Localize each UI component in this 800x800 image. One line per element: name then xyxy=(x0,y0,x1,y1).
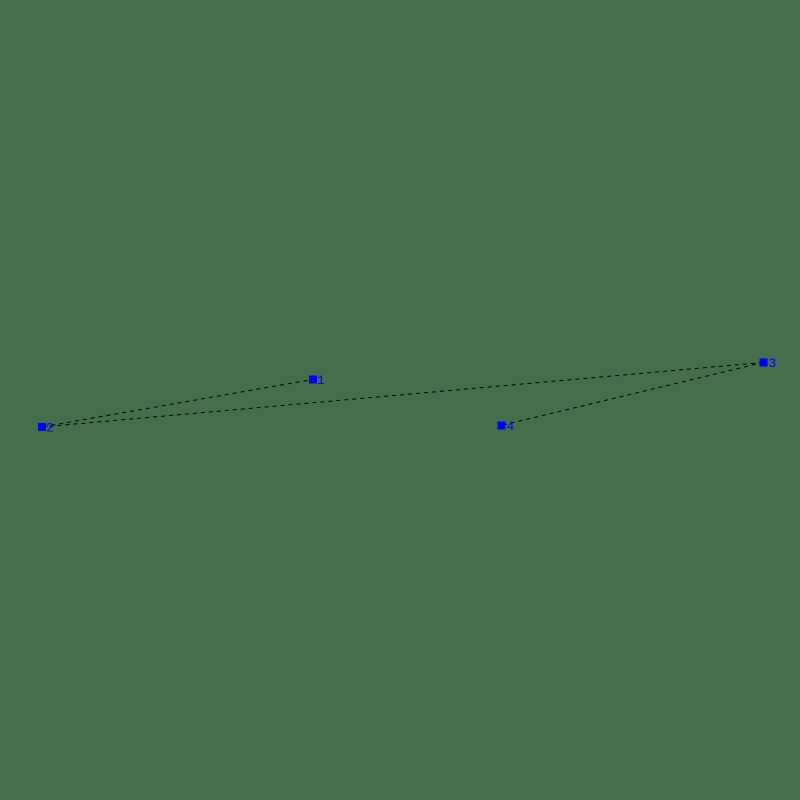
wire edge 2-1 xyxy=(42,380,313,428)
wire edge 2-3 xyxy=(42,363,764,428)
svg-text:2: 2 xyxy=(46,420,54,435)
wire edge 4-3 xyxy=(501,363,763,426)
svg-text:1: 1 xyxy=(317,373,325,388)
svg-text:3: 3 xyxy=(769,356,777,371)
node 1 xyxy=(309,373,325,388)
node 4 xyxy=(498,419,515,434)
node 3 xyxy=(760,356,777,371)
svg-text:4: 4 xyxy=(507,419,515,434)
node 2 xyxy=(38,420,54,435)
